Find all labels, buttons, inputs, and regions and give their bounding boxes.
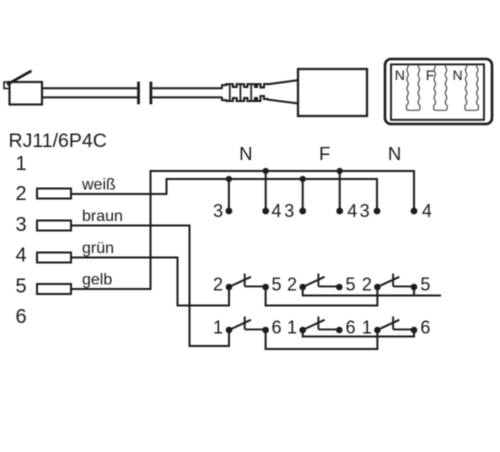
svg-text:5: 5 [346, 275, 356, 295]
svg-text:1: 1 [15, 153, 26, 175]
svg-text:1: 1 [213, 318, 223, 338]
svg-text:1: 1 [362, 318, 372, 338]
svg-text:weiß: weiß [81, 177, 116, 194]
svg-text:5: 5 [272, 275, 282, 295]
svg-text:3: 3 [360, 201, 370, 221]
svg-text:N: N [395, 67, 405, 83]
svg-text:gelb: gelb [82, 272, 112, 289]
svg-text:6: 6 [346, 318, 356, 338]
svg-text:RJ11/6P4C: RJ11/6P4C [9, 130, 107, 152]
svg-text:3: 3 [284, 201, 294, 221]
svg-text:2: 2 [213, 275, 223, 295]
svg-text:grün: grün [82, 240, 114, 257]
svg-text:5: 5 [15, 275, 26, 297]
svg-text:1: 1 [287, 318, 297, 338]
svg-text:F: F [319, 143, 330, 164]
svg-text:2: 2 [362, 275, 372, 295]
svg-text:F: F [426, 67, 435, 83]
svg-text:4: 4 [347, 201, 357, 221]
svg-text:4: 4 [422, 201, 432, 221]
svg-text:2: 2 [15, 183, 26, 205]
svg-text:3: 3 [213, 201, 223, 221]
svg-text:2: 2 [287, 275, 297, 295]
svg-text:5: 5 [420, 275, 430, 295]
svg-text:braun: braun [82, 208, 123, 225]
svg-text:6: 6 [272, 318, 282, 338]
svg-text:N: N [388, 143, 401, 164]
svg-text:4: 4 [15, 245, 26, 267]
svg-text:6: 6 [15, 306, 26, 328]
svg-text:N: N [239, 143, 252, 164]
svg-text:N: N [453, 67, 463, 83]
svg-text:3: 3 [15, 214, 26, 236]
svg-text:4: 4 [271, 201, 281, 221]
svg-text:6: 6 [420, 318, 430, 338]
